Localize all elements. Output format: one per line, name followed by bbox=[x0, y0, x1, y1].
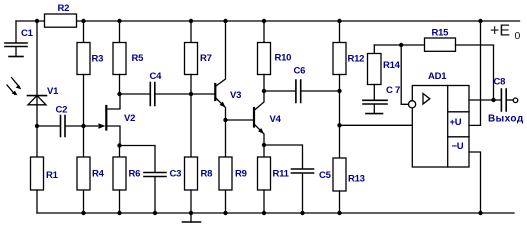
svg-text:R4: R4 bbox=[92, 169, 105, 180]
wire op-amp output bbox=[469, 99, 501, 101]
svg-text:C1: C1 bbox=[21, 28, 34, 39]
transistor V3 bbox=[191, 21, 226, 120]
resistor R15 bbox=[425, 38, 494, 100]
ground (C7) bbox=[366, 113, 383, 115]
capacitor C5 bbox=[264, 145, 314, 213]
wire feedback node bbox=[374, 44, 424, 46]
resistor R12 bbox=[333, 21, 346, 158]
svg-text:R13: R13 bbox=[348, 174, 365, 185]
wire V1 column bbox=[36, 21, 38, 157]
svg-text:AD1: AD1 bbox=[428, 71, 447, 82]
svg-text:R3: R3 bbox=[92, 54, 104, 65]
resistor R8 bbox=[185, 157, 198, 213]
svg-text:+E: +E bbox=[490, 23, 510, 40]
capacitor C6 bbox=[264, 80, 340, 103]
svg-text:R6: R6 bbox=[129, 169, 141, 180]
wire to inverting input bbox=[401, 45, 408, 104]
wire to non-inverting input bbox=[340, 124, 413, 126]
light arrow 1 bbox=[12, 78, 22, 90]
resistor R13 bbox=[333, 158, 346, 213]
svg-text:R5: R5 bbox=[132, 53, 145, 64]
svg-text:C3: C3 bbox=[170, 169, 182, 180]
capacitor C3 bbox=[120, 146, 167, 214]
transistor V2 bbox=[84, 94, 121, 146]
svg-text:C4: C4 bbox=[150, 71, 163, 82]
svg-text:0: 0 bbox=[515, 30, 521, 42]
svg-text:C 7: C 7 bbox=[386, 85, 400, 96]
svg-text:R7: R7 bbox=[200, 53, 212, 64]
svg-text:R12: R12 bbox=[348, 54, 365, 65]
resistor R4 bbox=[77, 126, 90, 213]
capacitor C8 bbox=[501, 89, 513, 111]
capacitor C7 bbox=[363, 100, 387, 113]
resistor R11 bbox=[258, 145, 271, 213]
svg-text:C8: C8 bbox=[494, 77, 506, 88]
resistor R6 bbox=[113, 146, 126, 214]
svg-text:V2: V2 bbox=[124, 113, 135, 124]
svg-text:V1: V1 bbox=[47, 86, 59, 97]
resistor R1 bbox=[31, 157, 44, 213]
svg-text:R15: R15 bbox=[432, 28, 450, 39]
wire +U supply bbox=[469, 21, 481, 125]
svg-text:R1: R1 bbox=[46, 170, 59, 181]
photodiode V1 bbox=[28, 96, 47, 105]
output terminal bbox=[513, 98, 518, 103]
light arrow 2 bbox=[7, 85, 17, 95]
svg-text:−U: −U bbox=[452, 141, 464, 152]
svg-text:Выход: Выход bbox=[488, 114, 524, 125]
svg-text:+U: +U bbox=[450, 117, 462, 128]
resistor R3 bbox=[77, 21, 90, 126]
wire bottom ground rail bbox=[37, 212, 514, 214]
wire -U supply bbox=[469, 152, 481, 213]
transistor V4 bbox=[226, 91, 265, 145]
svg-text:R2: R2 bbox=[58, 3, 70, 14]
svg-text:R10: R10 bbox=[275, 53, 292, 64]
resistor R5 bbox=[113, 21, 126, 94]
svg-text:V3: V3 bbox=[230, 90, 241, 101]
svg-text:C2: C2 bbox=[56, 105, 68, 116]
resistor R9 bbox=[219, 120, 232, 213]
capacitor C2 bbox=[37, 116, 84, 137]
resistor R10 bbox=[258, 21, 271, 91]
capacitor C4 bbox=[120, 83, 192, 106]
svg-text:R14: R14 bbox=[383, 60, 401, 71]
ground (middle) bbox=[183, 213, 201, 222]
wire top supply rail bbox=[16, 20, 520, 22]
svg-text:R9: R9 bbox=[235, 169, 247, 180]
svg-text:C5: C5 bbox=[319, 170, 332, 181]
resistor R2 bbox=[45, 14, 77, 27]
resistor R14 bbox=[368, 45, 382, 100]
ground (C1) bbox=[9, 56, 23, 58]
resistor R7 bbox=[185, 21, 198, 157]
svg-text:V4: V4 bbox=[270, 114, 282, 125]
svg-text:R8: R8 bbox=[201, 169, 213, 180]
capacitor C1 bbox=[5, 21, 27, 56]
svg-text:C6: C6 bbox=[294, 66, 306, 77]
svg-text:R11: R11 bbox=[273, 169, 290, 180]
op-amp U1 AD1 bbox=[409, 86, 470, 168]
